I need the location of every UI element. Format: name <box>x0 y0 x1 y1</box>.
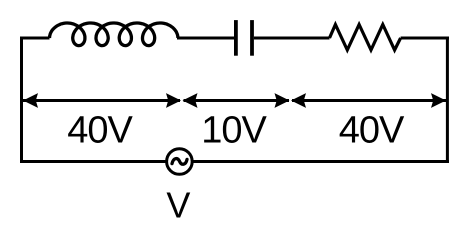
dimension arrow span 2 (10V) line <box>184 99 290 102</box>
dimension arrow span 3 (40V) line <box>292 99 446 102</box>
svg-text:V: V <box>166 185 190 226</box>
wire left vertical <box>20 37 23 164</box>
svg-text:10V: 10V <box>201 110 267 152</box>
arrowhead right of span 1 <box>166 93 181 108</box>
AC source V circle <box>167 149 193 175</box>
arrowhead left of span 2 <box>183 93 198 108</box>
arrowhead right of span 3 <box>431 93 446 108</box>
wire bottom segment left (corner to source) <box>20 160 167 163</box>
wire top segment B (inductor to capacitor) <box>177 37 234 40</box>
svg-text:40V: 40V <box>339 110 405 152</box>
wire bottom segment right (source to corner) <box>192 160 449 163</box>
resistor R1 zigzag <box>330 25 401 51</box>
dimension arrow span 1 (40V) line <box>23 99 180 102</box>
inductor L1 <box>50 23 178 46</box>
svg-text:40V: 40V <box>67 110 133 152</box>
capacitor C1 left plate <box>234 20 238 56</box>
arrowhead left of span 1 <box>23 93 38 108</box>
wire top segment A (left corner to inductor) <box>20 37 50 40</box>
wire top segment D (resistor to right corner) <box>401 37 449 40</box>
capacitor C1 right plate <box>250 20 254 56</box>
AC source sine symbol <box>172 159 187 165</box>
arrowhead left of span 3 <box>291 93 306 108</box>
wire top segment C (capacitor to resistor) <box>254 37 330 40</box>
wire right vertical <box>446 37 449 164</box>
arrowhead right of span 2 <box>275 93 290 108</box>
